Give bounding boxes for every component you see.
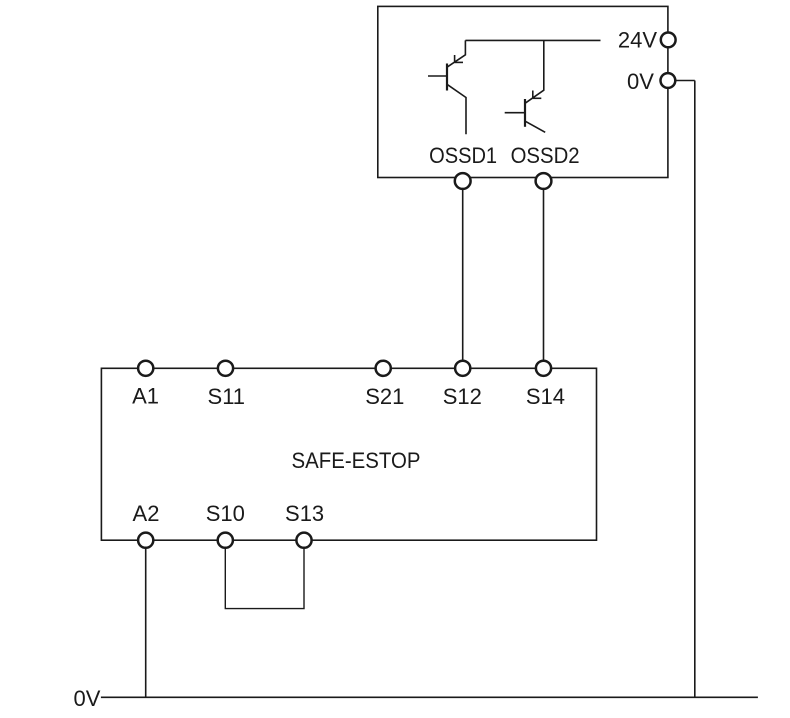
svg-text:A2: A2 [133,501,160,526]
wire right vertical drop to 0V rail [694,81,696,698]
svg-text:OSSD1: OSSD1 [429,143,497,168]
wire A2 to 0V rail [145,540,147,697]
terminal S13 [296,533,311,548]
svg-text:0V: 0V [74,686,101,711]
terminal A2 [138,533,153,548]
svg-text:A1: A1 [132,384,159,409]
terminal S21 [376,361,391,376]
terminal 24V [661,33,676,48]
wire 0V terminal to right drop [668,80,695,82]
svg-text:SAFE-ESTOP: SAFE-ESTOP [292,448,421,473]
svg-text:24V: 24V [618,28,657,53]
terminal S12 [455,361,470,376]
terminal 0V [661,73,676,88]
wire OSSD2 to S14 [543,181,545,368]
wire 24V rail inside sensor [465,39,600,41]
svg-text:S11: S11 [208,384,246,409]
svg-text:S21: S21 [365,384,404,409]
terminal S10 [218,533,233,548]
terminal A1 [138,361,153,376]
wire OSSD1 to S12 [462,181,464,368]
sensor box U1 [378,6,668,177]
terminal S14 [536,361,551,376]
transistor Q2 [505,40,546,132]
terminal OSSD2 [536,173,552,189]
svg-text:S14: S14 [526,384,565,409]
terminal S11 [218,361,233,376]
terminals (white filled circles) [138,33,676,548]
transistor Q1 [428,40,466,134]
SAFE-ESTOP box K1 [101,368,596,540]
wire bottom 0V rail [101,696,758,698]
svg-text:0V: 0V [627,69,654,94]
svg-text:S12: S12 [443,384,482,409]
svg-text:OSSD2: OSSD2 [511,143,580,168]
svg-text:S13: S13 [285,501,324,526]
terminal OSSD1 [455,173,471,189]
wire jumper S10 to S13 [225,540,304,608]
svg-text:S10: S10 [206,501,245,526]
